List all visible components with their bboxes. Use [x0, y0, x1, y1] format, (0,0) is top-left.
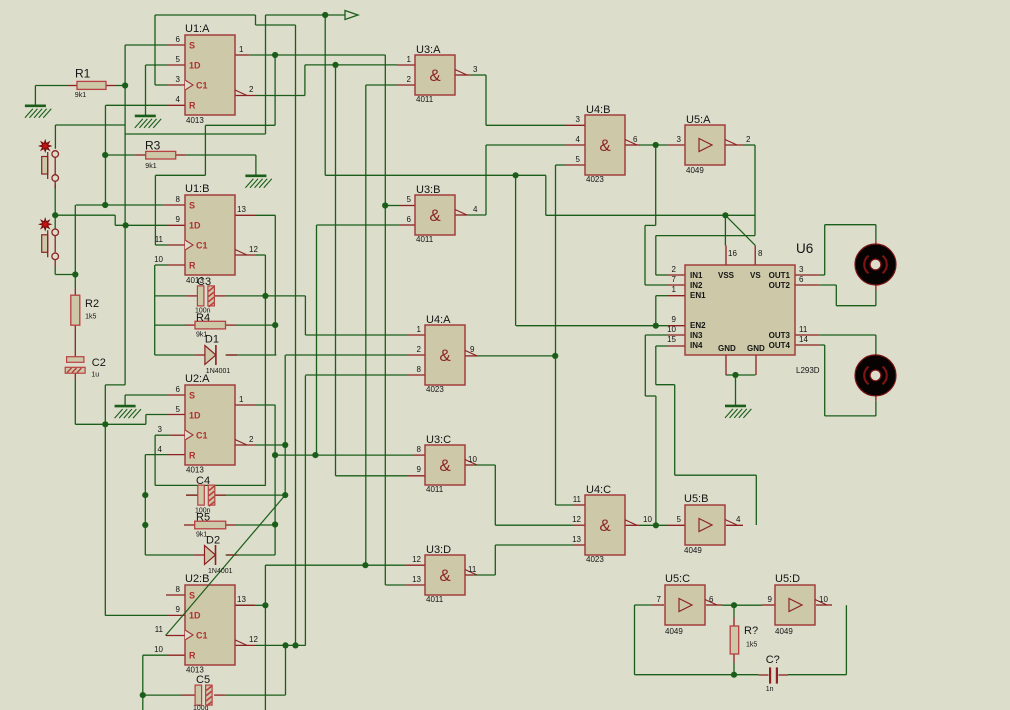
svg-text:&: &: [599, 516, 611, 535]
wire: [515, 175, 517, 325]
svg-text:8: 8: [417, 365, 422, 374]
junction: [731, 602, 737, 608]
power terminal arrow: [345, 11, 358, 20]
junction: [282, 492, 288, 498]
svg-text:1D: 1D: [189, 61, 201, 71]
ground at U1:A 1D: [135, 116, 161, 128]
wire: [655, 296, 657, 326]
wire: [516, 325, 668, 327]
svg-text:IN1: IN1: [690, 271, 703, 280]
wire: [635, 674, 759, 676]
wire: [754, 145, 756, 236]
wire: [256, 95, 305, 97]
wire: [274, 215, 276, 355]
wire: [825, 224, 876, 226]
svg-text:C4: C4: [196, 475, 210, 487]
wire: [819, 344, 825, 346]
wire: [125, 394, 167, 396]
svg-text:C1: C1: [196, 81, 208, 91]
wire: [545, 175, 547, 215]
svg-text:5: 5: [576, 155, 581, 164]
resistor R4: [195, 321, 226, 329]
wire: [824, 345, 826, 416]
svg-text:C5: C5: [196, 674, 210, 686]
wire: [743, 144, 755, 146]
svg-text:15: 15: [667, 335, 676, 344]
ground at L293D: [725, 406, 751, 418]
svg-text:2: 2: [407, 75, 412, 84]
wire: [265, 564, 405, 566]
svg-text:&: &: [439, 346, 451, 365]
capacitor C5: [195, 685, 212, 706]
wire: [143, 654, 167, 656]
wire: [114, 215, 116, 225]
wire: [34, 86, 36, 106]
wire: [155, 84, 167, 86]
svg-text:9: 9: [176, 605, 181, 614]
wire: [115, 224, 167, 226]
junction: [731, 672, 737, 678]
junction: [272, 52, 278, 58]
svg-text:13: 13: [572, 535, 581, 544]
wire diagonal VSS junction to VS pin 8: [725, 215, 755, 245]
svg-text:14: 14: [799, 335, 808, 344]
svg-text:4011: 4011: [426, 485, 444, 494]
svg-text:S: S: [189, 591, 195, 601]
D flip-flop U2:A (4013): [185, 385, 235, 465]
junction: [653, 323, 659, 329]
wire: [236, 604, 255, 606]
svg-text:11: 11: [155, 625, 164, 634]
wire: [556, 504, 574, 506]
junction: [653, 522, 659, 528]
svg-text:R2: R2: [85, 298, 99, 310]
wire: [336, 475, 408, 477]
wire: [264, 565, 266, 710]
svg-text:1k5: 1k5: [85, 314, 96, 321]
svg-text:R: R: [189, 101, 196, 111]
wire: [471, 74, 486, 76]
svg-text:R: R: [189, 651, 196, 661]
capacitor C3: [197, 286, 214, 307]
wire diagonal C4 junction to U2:B 1D: [185, 495, 286, 613]
motor M2: [855, 355, 896, 396]
svg-text:EN2: EN2: [690, 321, 706, 330]
wire: [819, 284, 836, 286]
junction: [332, 62, 338, 68]
NAND gate U4:A (4023): [425, 325, 465, 385]
svg-text:C1: C1: [196, 431, 208, 441]
wire: [724, 215, 726, 245]
wire: [305, 334, 407, 336]
junction: [122, 82, 128, 88]
svg-text:7: 7: [657, 595, 662, 604]
svg-text:6: 6: [633, 135, 638, 144]
wire: [256, 404, 276, 406]
wire: [74, 380, 76, 424]
wire: [226, 554, 276, 556]
svg-text:4049: 4049: [684, 546, 702, 555]
svg-text:2: 2: [672, 265, 677, 274]
resistor R5: [195, 521, 226, 529]
svg-text:6: 6: [799, 275, 804, 284]
wire: [286, 354, 408, 356]
junction: [312, 452, 318, 458]
motor driver U6 L293D: [685, 265, 795, 355]
motor M1: [855, 244, 896, 285]
wire: [54, 185, 56, 230]
svg-text:13: 13: [412, 575, 421, 584]
wire: [656, 274, 668, 276]
wire: [645, 334, 668, 336]
junction: [123, 222, 129, 228]
svg-text:8: 8: [176, 585, 181, 594]
wire: [75, 423, 146, 425]
wire: [385, 205, 400, 207]
svg-text:10: 10: [154, 255, 163, 264]
svg-text:U6: U6: [796, 241, 813, 256]
NAND gate U3:D (4011): [425, 555, 465, 595]
svg-text:13: 13: [237, 595, 246, 604]
wire: [256, 214, 275, 216]
wire: [473, 574, 495, 576]
svg-text:10: 10: [154, 645, 163, 654]
svg-text:1k5: 1k5: [746, 642, 757, 649]
wire: [819, 334, 876, 336]
junction: [262, 293, 268, 299]
wire: [640, 524, 667, 526]
svg-text:1N4001: 1N4001: [206, 368, 231, 375]
wire: [468, 214, 486, 216]
junction: [552, 353, 558, 359]
wire: [875, 335, 877, 355]
svg-text:4: 4: [158, 445, 163, 454]
wire: [55, 214, 115, 216]
junction: [142, 522, 148, 528]
svg-text:4023: 4023: [426, 385, 444, 394]
svg-text:3: 3: [473, 65, 478, 74]
push button SW1: [40, 140, 59, 181]
svg-text:11: 11: [799, 325, 808, 334]
wire: [265, 15, 267, 134]
svg-text:1N4001: 1N4001: [208, 568, 233, 575]
wire: [124, 45, 126, 385]
wire: [366, 84, 397, 86]
wire: [226, 694, 286, 696]
wire: [656, 295, 668, 297]
wire: [142, 655, 144, 710]
svg-text:R1: R1: [75, 67, 91, 81]
svg-text:OUT2: OUT2: [769, 281, 791, 290]
svg-text:8: 8: [417, 445, 422, 454]
svg-text:3: 3: [158, 425, 163, 434]
wire: [316, 225, 318, 455]
svg-text:U5:C: U5:C: [665, 573, 690, 585]
svg-text:9: 9: [672, 315, 677, 324]
svg-text:1: 1: [407, 55, 412, 64]
wire: [656, 384, 675, 386]
svg-text:OUT4: OUT4: [769, 341, 791, 350]
svg-text:U3:B: U3:B: [416, 184, 440, 196]
svg-text:9k1: 9k1: [145, 163, 156, 170]
wire: [656, 235, 755, 237]
wire: [154, 435, 156, 485]
junction: [140, 692, 146, 698]
svg-text:VS: VS: [750, 271, 761, 280]
svg-text:1: 1: [239, 45, 244, 54]
wire: [645, 284, 668, 286]
wire: [755, 475, 757, 525]
svg-text:4: 4: [576, 135, 581, 144]
junction: [272, 521, 278, 527]
wire: [205, 124, 275, 126]
wire: [335, 65, 337, 476]
svg-text:100n: 100n: [195, 508, 211, 515]
wire: [264, 255, 266, 485]
svg-text:2: 2: [249, 85, 254, 94]
wire: [143, 694, 181, 696]
wire: [274, 55, 276, 125]
ground near R1: [25, 106, 51, 118]
svg-text:S: S: [189, 41, 195, 51]
svg-text:IN2: IN2: [690, 281, 703, 290]
wire: [875, 290, 877, 306]
wire: [875, 401, 877, 416]
wire: [55, 274, 75, 276]
svg-text:10: 10: [667, 325, 676, 334]
svg-text:1u: 1u: [91, 372, 99, 379]
resistor R1: [77, 81, 106, 89]
wire: [155, 324, 185, 326]
svg-text:3: 3: [576, 115, 581, 124]
svg-text:L293D: L293D: [796, 366, 820, 375]
wire: [125, 133, 265, 135]
diode D2: [205, 545, 216, 565]
wire: [305, 374, 407, 376]
junction: [513, 172, 519, 178]
junction: [292, 642, 298, 648]
svg-text:C2: C2: [92, 357, 106, 369]
svg-text:IN4: IN4: [690, 341, 703, 350]
wire: [155, 174, 205, 176]
wire: [304, 376, 306, 646]
svg-text:C1: C1: [196, 241, 208, 251]
svg-text:3: 3: [176, 75, 181, 84]
wire: [556, 164, 566, 166]
wire: [256, 254, 266, 256]
svg-text:U4:C: U4:C: [586, 484, 611, 496]
wire: [485, 145, 487, 215]
wire: [304, 65, 306, 96]
wire: [845, 605, 847, 675]
wire: [674, 385, 676, 476]
svg-text:11: 11: [155, 235, 164, 244]
wire: [478, 355, 555, 357]
wire: [819, 274, 825, 276]
svg-text:4049: 4049: [775, 627, 793, 636]
wire: [644, 225, 646, 285]
wire: [145, 554, 194, 556]
wire: [154, 265, 156, 355]
svg-text:4013: 4013: [186, 276, 204, 285]
wire: [365, 85, 367, 565]
svg-text:13: 13: [237, 205, 246, 214]
wire: [485, 75, 487, 125]
svg-text:9k1: 9k1: [196, 332, 207, 339]
wire: [105, 614, 167, 616]
junction: [732, 372, 738, 378]
svg-text:4: 4: [473, 205, 478, 214]
svg-text:12: 12: [249, 245, 258, 254]
wire: [275, 454, 413, 456]
wire: [875, 225, 877, 241]
wire: [236, 524, 276, 526]
wire: [494, 465, 496, 525]
junction: [653, 142, 659, 148]
wire: [555, 165, 557, 505]
svg-text:1n: 1n: [766, 686, 774, 693]
wire: [145, 454, 167, 456]
inverted output marks: [235, 70, 827, 646]
svg-text:5: 5: [176, 55, 181, 64]
wire: [116, 85, 125, 87]
svg-text:1: 1: [417, 325, 422, 334]
svg-text:9k1: 9k1: [75, 92, 86, 99]
wire: [635, 604, 653, 606]
svg-text:12: 12: [572, 515, 581, 524]
svg-text:&: &: [599, 136, 611, 155]
wire: [835, 285, 837, 306]
svg-text:4013: 4013: [186, 116, 204, 125]
wire: [125, 44, 167, 46]
svg-text:4: 4: [176, 95, 181, 104]
svg-text:R?: R?: [744, 625, 758, 637]
wire: [145, 65, 147, 116]
svg-text:10: 10: [819, 595, 828, 604]
svg-text:U4:A: U4:A: [426, 314, 451, 326]
svg-text:12: 12: [412, 555, 421, 564]
svg-text:100u: 100u: [193, 705, 209, 710]
buffer U5:C (4049): [665, 585, 705, 625]
svg-text:4011: 4011: [426, 595, 444, 604]
junction: [322, 12, 328, 18]
wire: [54, 267, 56, 275]
svg-text:U5:D: U5:D: [775, 573, 800, 585]
svg-text:4013: 4013: [186, 666, 204, 675]
svg-text:EN1: EN1: [690, 291, 706, 300]
svg-text:U3:D: U3:D: [426, 544, 451, 556]
wire: [735, 375, 737, 406]
svg-text:S: S: [189, 391, 195, 401]
wire: [255, 155, 257, 176]
wire: [145, 415, 147, 425]
NAND gate U4:B (4023): [585, 115, 625, 175]
wire: [284, 355, 286, 495]
wire: [155, 354, 195, 356]
ground at U2:A S: [115, 406, 141, 418]
svg-text:11: 11: [573, 495, 582, 504]
NAND gate U3:B (4011): [415, 195, 455, 235]
svg-text:5: 5: [407, 195, 412, 204]
wire: [645, 224, 656, 226]
wire: [325, 174, 546, 176]
wire: [104, 385, 106, 616]
svg-text:5: 5: [677, 515, 682, 524]
capacitor C4: [198, 485, 215, 506]
svg-text:4013: 4013: [186, 466, 204, 475]
wire: [155, 484, 266, 486]
wire: [722, 604, 762, 606]
wire: [836, 305, 876, 307]
wire: [54, 125, 56, 149]
svg-text:1: 1: [672, 285, 677, 294]
svg-text:6: 6: [407, 215, 412, 224]
push button SW2: [40, 219, 59, 260]
svg-text:11: 11: [468, 565, 477, 574]
capacitor C?: [769, 667, 778, 683]
svg-text:4023: 4023: [586, 175, 604, 184]
svg-text:U3:A: U3:A: [416, 44, 441, 56]
wire: [486, 124, 565, 126]
wire: [266, 14, 346, 16]
wire: [285, 645, 287, 695]
svg-text:100n: 100n: [195, 308, 211, 315]
junction: [142, 492, 148, 498]
wire diagonal to U2:B pin 11: [166, 614, 185, 636]
wire: [226, 354, 277, 356]
buffer U5:B (4049): [685, 505, 725, 545]
D flip-flop U1:A (4013): [185, 35, 235, 115]
svg-text:C?: C?: [766, 654, 780, 666]
wire: [825, 415, 876, 417]
NAND gate U3:C (4011): [425, 445, 465, 485]
wire: [186, 494, 198, 496]
svg-text:IN3: IN3: [690, 331, 703, 340]
svg-text:4: 4: [736, 515, 741, 524]
wire: [640, 144, 668, 146]
svg-text:1D: 1D: [189, 411, 201, 421]
junction: [272, 452, 278, 458]
wire: [733, 663, 735, 675]
svg-text:&: &: [439, 566, 451, 585]
wire: [317, 224, 401, 226]
NAND gate U3:A (4011): [415, 55, 455, 95]
svg-text:S: S: [189, 201, 195, 211]
wire: [146, 414, 167, 416]
wire: [645, 395, 656, 397]
D flip-flop U1:B (4013): [185, 195, 235, 275]
svg-text:4049: 4049: [686, 166, 704, 175]
svg-text:9: 9: [470, 345, 475, 354]
svg-text:U3:C: U3:C: [426, 434, 451, 446]
wire: [486, 144, 565, 146]
junction: [102, 421, 108, 427]
svg-text:9: 9: [417, 465, 422, 474]
svg-text:16: 16: [728, 249, 737, 258]
svg-text:4049: 4049: [665, 627, 683, 636]
svg-text:GND: GND: [718, 344, 736, 353]
wire: [644, 335, 646, 396]
wire: [274, 405, 276, 555]
svg-text:4011: 4011: [416, 235, 434, 244]
wire: [154, 175, 156, 245]
wire: [55, 124, 125, 126]
wire: [76, 204, 164, 206]
wire: [104, 105, 106, 205]
ground at R3: [245, 176, 271, 188]
wire: [35, 85, 67, 87]
wire: [255, 644, 306, 646]
